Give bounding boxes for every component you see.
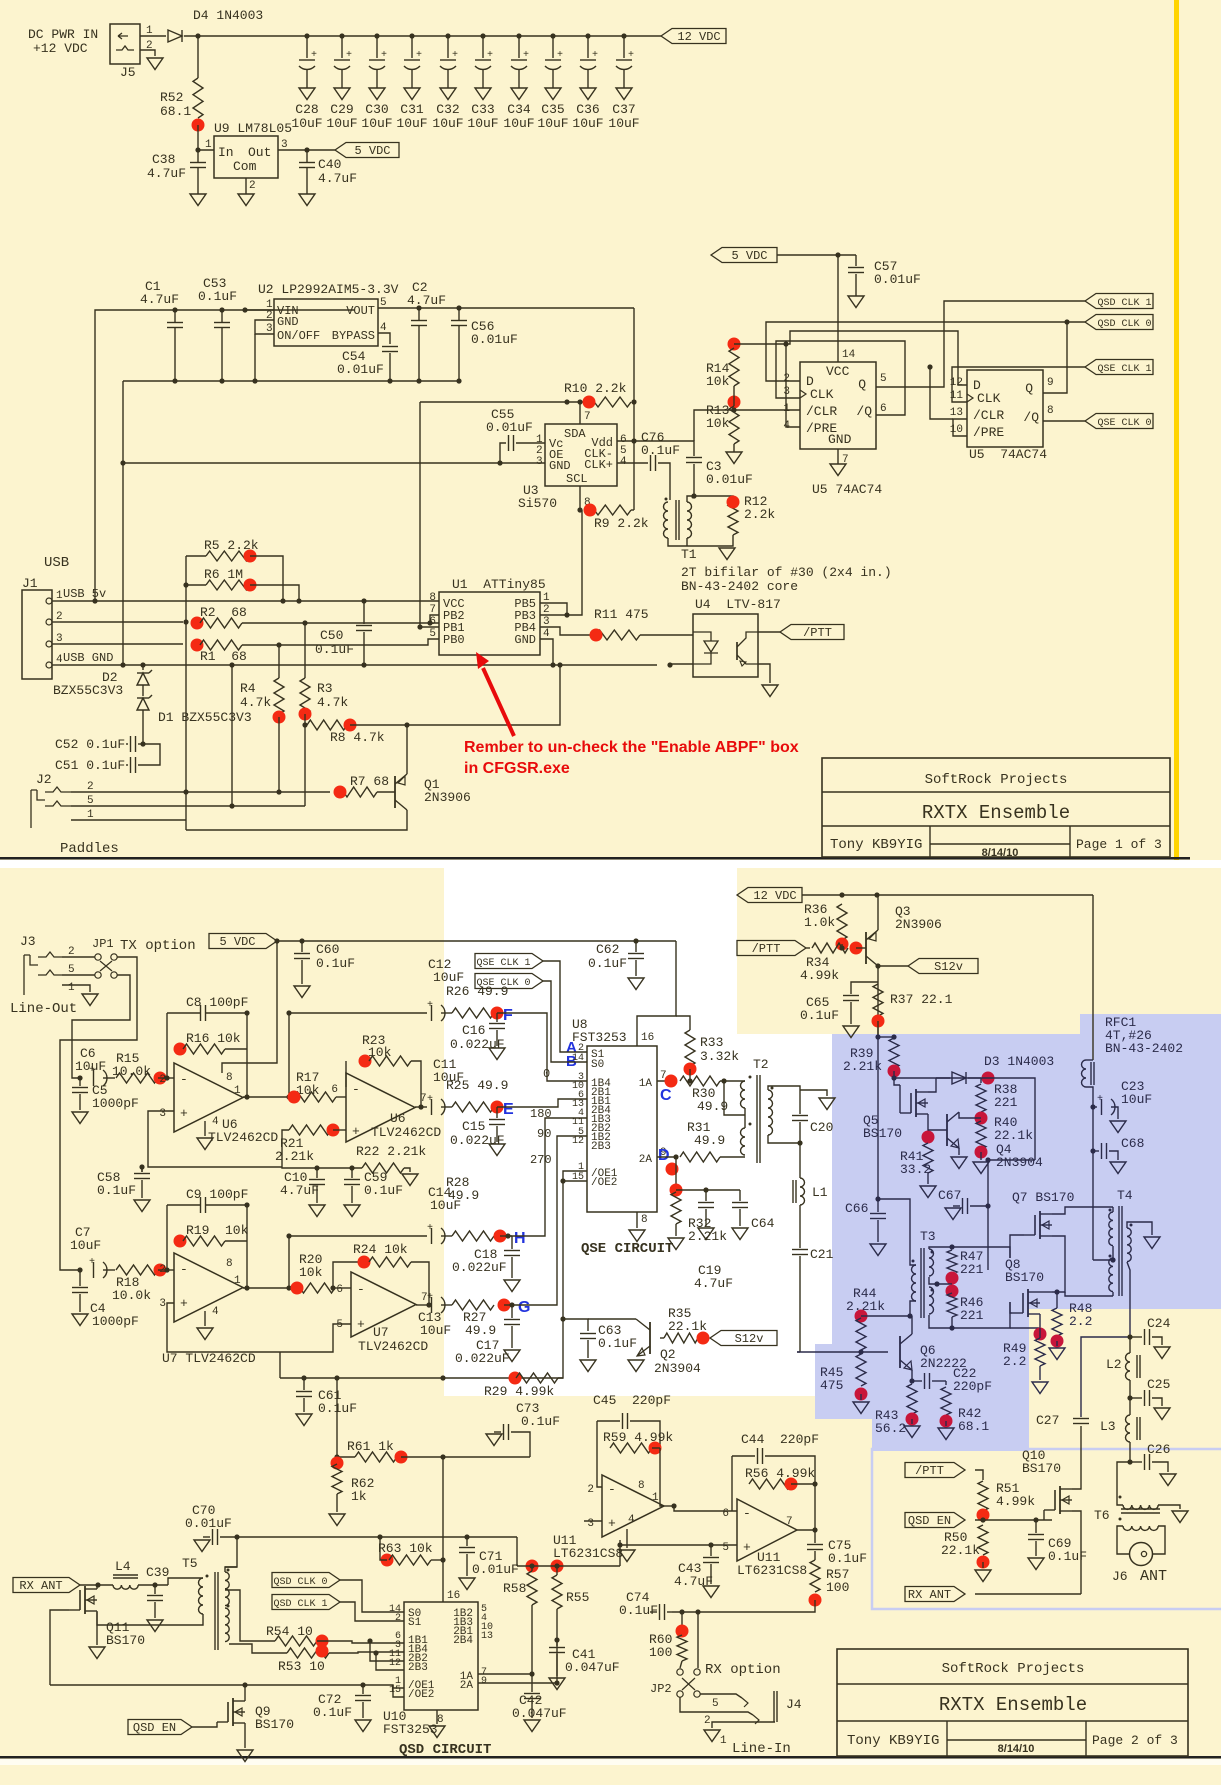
resistor R25 49.9	[441, 1106, 452, 1108]
red dot R9 left	[584, 504, 597, 517]
svg-text:RX option: RX option	[705, 1662, 781, 1678]
svg-text:0.047uF: 0.047uF	[512, 1706, 567, 1721]
svg-text:+: +	[381, 50, 387, 61]
svg-text:FST3253: FST3253	[383, 1722, 438, 1737]
svg-text:3: 3	[543, 616, 550, 628]
svg-text:16: 16	[447, 1590, 460, 1602]
wire R17 to U6b	[336, 1096, 346, 1098]
capacitor C59 0.1uF	[351, 1168, 353, 1178]
QSD EN flag	[905, 1513, 965, 1528]
svg-text:L1: L1	[812, 1185, 828, 1200]
svg-text:8: 8	[226, 1258, 233, 1270]
IC U3 Si570	[545, 424, 617, 486]
wire R60 to JP2	[680, 1661, 682, 1668]
svg-text:JP1: JP1	[92, 937, 114, 951]
resistor R62 1k	[331, 1457, 344, 1470]
ground R22 right	[404, 1168, 410, 1172]
svg-text:4: 4	[380, 322, 387, 334]
wire RX ANT line	[975, 1593, 1081, 1595]
ground below C40	[299, 194, 315, 206]
inductor L3	[1129, 1398, 1131, 1415]
svg-text:Com: Com	[233, 159, 257, 174]
bottom page border line	[0, 1756, 1221, 1759]
wire Q8 drain to T4 bottom	[1040, 1291, 1052, 1293]
transformer T2 primary lower	[741, 1128, 746, 1155]
svg-text:6: 6	[722, 1508, 729, 1520]
capacitor C62 0.1uF	[635, 941, 637, 952]
resistor R52 68.1	[197, 36, 199, 78]
svg-text:0.01uF: 0.01uF	[874, 272, 921, 287]
wire T4 secondary top gnd hook	[1127, 1222, 1152, 1235]
svg-text:J1: J1	[22, 576, 38, 591]
wire Q7 gate	[1010, 1235, 1024, 1258]
capacitor C3 0.01uF	[634, 441, 694, 456]
svg-text:GND: GND	[514, 633, 536, 647]
svg-text:0.1uF: 0.1uF	[641, 443, 680, 458]
wire U2 GND ON/OFF jog	[255, 320, 274, 334]
wire USB pin2 to R2	[60, 621, 183, 623]
wires R54 R53 to U10	[317, 1641, 404, 1643]
svg-text:C15: C15	[462, 1119, 485, 1134]
svg-text:T3: T3	[920, 1229, 936, 1244]
wire C76 to T1	[658, 463, 670, 500]
svg-text:2: 2	[543, 604, 550, 616]
wire R52 to U9 In	[198, 125, 214, 150]
wire Q5 drain up	[928, 1078, 936, 1092]
wire R20 to U7b	[335, 1287, 351, 1289]
svg-text:475: 475	[820, 1378, 843, 1393]
svg-text:Q7 BS170: Q7 BS170	[1012, 1190, 1074, 1205]
ground below C35	[545, 88, 561, 100]
svg-text:L3: L3	[1100, 1419, 1116, 1434]
svg-text:16: 16	[641, 1032, 654, 1044]
svg-text:10uF: 10uF	[608, 116, 639, 131]
wire Q2 emitter gnd	[628, 1360, 644, 1372]
wire paddle pin5 line	[71, 805, 305, 807]
wire R7 to Q1 base	[377, 791, 395, 793]
wire J5 pin2 to ground	[140, 50, 155, 56]
svg-text:ON/OFF: ON/OFF	[277, 329, 320, 343]
wire T6 primary right gnd	[1158, 1505, 1180, 1509]
svg-text:14: 14	[842, 349, 856, 361]
resistor R56 4.99k	[749, 1479, 791, 1489]
wire U5b Q pin9 to QSD CLK 0	[1043, 322, 1067, 393]
svg-text:C64: C64	[751, 1216, 775, 1231]
svg-text:+: +	[427, 1094, 433, 1105]
svg-text:SDA: SDA	[564, 427, 586, 441]
wire R5 R6 left to USB5v	[185, 585, 187, 622]
svg-text:7: 7	[429, 604, 436, 616]
resistor R28 49.9	[441, 1235, 452, 1237]
svg-text:5: 5	[68, 964, 75, 976]
svg-text:SoftRock Projects: SoftRock Projects	[942, 1661, 1085, 1677]
svg-text:1: 1	[543, 592, 550, 604]
resistor R4 4.7k	[278, 645, 280, 678]
svg-text:68.1: 68.1	[160, 104, 191, 119]
resistor R2 68	[191, 617, 204, 630]
svg-text:C39: C39	[146, 1565, 169, 1580]
wire T5 sec top rail C70	[225, 1567, 237, 1572]
svg-text:15: 15	[389, 1685, 401, 1696]
svg-text:4: 4	[783, 420, 790, 432]
wire T2 secondary top to gnd	[768, 1086, 800, 1090]
wire R12 bottom gnd	[727, 535, 733, 546]
svg-text:1k: 1k	[351, 1489, 367, 1504]
wire R21 left bias	[282, 1130, 362, 1168]
svg-text:C29: C29	[330, 102, 353, 117]
op-amp U11a LT6231CS8	[602, 1475, 664, 1537]
svg-text:/OE2: /OE2	[591, 1177, 617, 1189]
svg-text:5 VDC: 5 VDC	[219, 935, 255, 949]
ground U5a pin7	[837, 449, 839, 464]
wire R37 into blue region	[877, 1021, 879, 1037]
svg-text:ANT: ANT	[1140, 1568, 1167, 1585]
capacitor C4 1000pF	[79, 1270, 81, 1286]
wire U1 GND pin4	[540, 639, 553, 665]
svg-text:10uF: 10uF	[433, 970, 464, 985]
12 VDC net flag	[661, 29, 726, 44]
wire R32 bottom rail	[675, 1224, 677, 1236]
svg-text:22.1k: 22.1k	[994, 1128, 1033, 1143]
ground below U9 Com	[238, 194, 254, 206]
svg-text:10uF: 10uF	[1121, 1092, 1152, 1107]
svg-text:+: +	[487, 50, 493, 61]
wire QSD EN to Q9 gate	[192, 1722, 217, 1727]
op-amp U6b TLV2462CD	[346, 1073, 415, 1142]
svg-text:Rember to un-check the "Enable: Rember to un-check the "Enable ABPF" box	[464, 739, 799, 756]
wire Q11 source gnd	[96, 1611, 98, 1645]
svg-text:2: 2	[146, 40, 153, 52]
svg-text:221: 221	[960, 1308, 984, 1323]
svg-text:QSD CLK 1: QSD CLK 1	[1097, 298, 1151, 309]
wire Vdd pin6 to rail	[617, 440, 634, 442]
svg-text:10uF: 10uF	[572, 116, 603, 131]
svg-text:C28: C28	[295, 102, 318, 117]
svg-text:49.9: 49.9	[465, 1323, 496, 1338]
svg-text:TX option: TX option	[120, 938, 196, 954]
svg-text:U6: U6	[390, 1111, 406, 1126]
capacitor C2 4.7uF	[418, 308, 420, 320]
wire R2 right	[242, 622, 439, 624]
wire J5 pin1 to D4	[140, 35, 166, 37]
svg-text:180: 180	[530, 1107, 552, 1121]
wire U6a pin3 bias rail	[148, 1111, 282, 1167]
wire PTT to R34	[806, 947, 810, 949]
resistor R21 2.21k	[289, 1125, 331, 1135]
svg-text:10uF: 10uF	[70, 1238, 101, 1253]
ground at J3 pin1	[62, 985, 90, 992]
svg-text:Page 1 of 3: Page 1 of 3	[1076, 837, 1162, 852]
wire D lines down to paddles	[185, 622, 187, 792]
svg-text:270: 270	[530, 1153, 552, 1167]
svg-text:+: +	[452, 50, 458, 61]
transistor Q6 2N2222	[899, 1336, 901, 1368]
wire R33 to 1A	[689, 1069, 691, 1081]
svg-text:10uF: 10uF	[326, 116, 357, 131]
wire OE line	[50, 1685, 404, 1688]
wire T4 secondary bottom to filter	[1127, 1262, 1130, 1337]
svg-text:QSE CLK 1: QSE CLK 1	[476, 958, 530, 969]
svg-text:0.01uF: 0.01uF	[486, 420, 533, 435]
wire R39 to D3 rail	[894, 1071, 950, 1078]
wire Q9 drain to OE line	[244, 1685, 246, 1701]
svg-text:5: 5	[429, 628, 436, 640]
resistor R46 221	[947, 1293, 957, 1317]
5 VDC flag page2	[209, 934, 277, 949]
wire U6a out	[243, 1096, 294, 1098]
svg-text:6: 6	[880, 403, 887, 415]
wire T1 secondary bottom	[686, 538, 688, 546]
QSD EN flag left	[128, 1720, 192, 1735]
resistor R49 2.2	[1034, 1328, 1047, 1341]
wire base rail Q6	[797, 1351, 888, 1353]
svg-text:Q2: Q2	[660, 1347, 676, 1362]
svg-text:U7 TLV2462CD: U7 TLV2462CD	[162, 1351, 256, 1366]
resistor R50 22.1k	[978, 1525, 988, 1555]
wire U7b pin5 bias	[167, 1311, 351, 1352]
wire U11a out	[664, 1505, 674, 1507]
ground below R48	[1056, 1341, 1058, 1346]
wire paddle pin2 line	[71, 791, 330, 793]
svg-text:SCL: SCL	[566, 472, 588, 486]
svg-text:J3: J3	[20, 934, 36, 949]
svg-text:+: +	[557, 50, 563, 61]
svg-text:Si570: Si570	[518, 496, 557, 511]
svg-text:/OE2: /OE2	[408, 1689, 434, 1701]
resistor R36 1.0k	[837, 904, 847, 940]
svg-text:0.1uF: 0.1uF	[97, 1183, 136, 1198]
wire U5b CLR PRE tie	[953, 419, 967, 436]
wire QSE CLK 1 to S1	[543, 961, 587, 1052]
svg-text:TLV2462CD: TLV2462CD	[358, 1339, 428, 1354]
resistor R47 221	[947, 1250, 957, 1274]
wire SDA net from R10 down to U1 PB1	[420, 402, 439, 627]
svg-text:Tony KB9YIG: Tony KB9YIG	[847, 1733, 939, 1749]
svg-text:+: +	[608, 1516, 616, 1531]
resistor R48 2.2	[1056, 1292, 1058, 1308]
svg-text:12 VDC: 12 VDC	[753, 889, 796, 903]
svg-text:10.0k: 10.0k	[112, 1064, 151, 1079]
capacitor C75 0.1uF	[814, 1530, 816, 1543]
wire U4 out to PTT flag	[758, 631, 780, 633]
zener D2 BZX55C3V3	[142, 665, 144, 670]
wire R21 to U6b pin5	[333, 1129, 346, 1131]
svg-text:GND: GND	[277, 315, 299, 329]
svg-text:/PTT: /PTT	[915, 1464, 944, 1478]
svg-text:R9 2.2k: R9 2.2k	[594, 516, 649, 531]
wire SCL net down to U1 PB3	[540, 510, 582, 615]
wire U9 Out to 5VDC	[278, 149, 335, 151]
svg-text:GND: GND	[549, 459, 571, 473]
svg-text:1: 1	[720, 1735, 727, 1747]
svg-text:C9 100pF: C9 100pF	[186, 1187, 248, 1202]
wire T5 taps to R54 R53	[225, 1590, 275, 1641]
wire USB pin3 to R1	[60, 643, 183, 645]
wire R58 R55 top rail	[517, 1565, 620, 1567]
svg-text:9: 9	[1047, 377, 1054, 389]
svg-text:BS170: BS170	[1005, 1270, 1044, 1285]
blue region page2 PA	[815, 1014, 1221, 1451]
svg-text:6: 6	[331, 1084, 338, 1096]
svg-text:13: 13	[950, 407, 963, 419]
svg-text:R10 2.2k: R10 2.2k	[564, 381, 627, 396]
wire R15 to U6a pin2	[158, 1077, 174, 1079]
svg-text:VOUT: VOUT	[346, 304, 375, 318]
capacitor C68	[1090, 1148, 1095, 1153]
svg-text:2.2k: 2.2k	[744, 507, 775, 522]
svg-text:9: 9	[481, 1676, 487, 1687]
svg-text:C67: C67	[938, 1188, 961, 1203]
capacitor C17 0.022uF	[504, 1304, 512, 1306]
svg-text:RX ANT: RX ANT	[908, 1588, 951, 1602]
svg-text:4.7k: 4.7k	[317, 695, 348, 710]
svg-text:2A: 2A	[460, 1680, 474, 1692]
transistor Q3 2N3906	[865, 932, 867, 964]
resistor R12 2.2k	[728, 503, 738, 535]
resistor R31 49.9	[680, 1152, 720, 1162]
capacitor C60 0.1uF	[301, 941, 303, 952]
svg-text:QSE CIRCUIT: QSE CIRCUIT	[581, 1241, 673, 1257]
capacitor C67	[936, 1077, 988, 1079]
svg-text:2.21k: 2.21k	[275, 1149, 314, 1164]
svg-text:0.1uF: 0.1uF	[828, 1551, 867, 1566]
resistor R55	[551, 1560, 564, 1573]
wire G to U8	[512, 1136, 587, 1305]
svg-text:In: In	[218, 145, 234, 160]
svg-text:R24 10k: R24 10k	[353, 1242, 408, 1257]
svg-text:4.7k: 4.7k	[240, 695, 271, 710]
zener D1 BZX55C3V3	[142, 685, 144, 696]
svg-text:8: 8	[641, 1214, 648, 1226]
ground below R43	[911, 1419, 913, 1424]
title block page 2	[837, 1649, 1188, 1756]
wire R39 to Q5 gate	[894, 1078, 900, 1085]
wire S12 bus in PA	[877, 1037, 879, 1199]
svg-text:1: 1	[146, 25, 153, 37]
svg-text:R37 22.1: R37 22.1	[890, 992, 953, 1007]
svg-text:in CFGSR.exe: in CFGSR.exe	[464, 760, 570, 777]
wire Q10 source to RX ANT	[1072, 1511, 1081, 1594]
capacitor C29 10uF	[339, 33, 344, 38]
op-amp U7a TLV2462CD	[174, 1253, 243, 1322]
svg-text:R25 49.9: R25 49.9	[446, 1078, 508, 1093]
wire JP1 to C6 channel	[72, 975, 130, 1078]
wire Q8 gate	[1010, 1302, 1012, 1313]
5 VDC net flag	[335, 143, 399, 158]
wire Q7 drain to T4	[1052, 1207, 1113, 1214]
wire paddle pin1 gnd	[71, 819, 186, 821]
wire C70 rail to QSD outputs	[237, 1536, 517, 1538]
svg-text:5: 5	[880, 373, 887, 385]
capacitor C66	[875, 1196, 880, 1201]
wire H to U8	[508, 1118, 587, 1236]
resistor R8 4.7k	[307, 720, 347, 730]
svg-text:R4: R4	[240, 681, 256, 696]
wire rail corner down to R58 line	[516, 1537, 518, 1566]
wire R4 bottom down	[278, 717, 280, 792]
wire R1 right	[242, 639, 439, 645]
capacitor C69 0.1uF	[1035, 1520, 1037, 1533]
svg-text:DC PWR IN: DC PWR IN	[28, 27, 98, 42]
svg-text:QSE CLK 0: QSE CLK 0	[1097, 418, 1151, 429]
svg-text:2B4: 2B4	[453, 1635, 473, 1647]
resistor R13 10k	[728, 396, 741, 409]
capacitor C33 10uF	[480, 33, 485, 38]
svg-text:5: 5	[722, 1542, 729, 1554]
svg-text:8/14/10: 8/14/10	[982, 847, 1019, 859]
svg-text:C27: C27	[1036, 1413, 1059, 1428]
wire OE2 stub	[393, 1685, 404, 1697]
svg-text:U2 LP2992AIM5-3.3V: U2 LP2992AIM5-3.3V	[258, 282, 399, 297]
svg-text:22.1k: 22.1k	[941, 1543, 980, 1558]
svg-text:C38: C38	[152, 152, 175, 167]
svg-text:8: 8	[638, 1480, 645, 1492]
IC U8 FST3253	[587, 1046, 657, 1212]
capacitor C76 0.1uF	[650, 455, 652, 471]
wire T1 secondary to R12	[687, 496, 733, 502]
svg-text:C40: C40	[318, 157, 341, 172]
svg-text:+12 VDC: +12 VDC	[33, 41, 88, 56]
wire Q1 collector down	[186, 810, 407, 830]
svg-text:R1 68: R1 68	[200, 649, 247, 664]
svg-text:2T bifilar of #30 (2x4 in.): 2T bifilar of #30 (2x4 in.)	[681, 565, 892, 580]
svg-text:C62: C62	[596, 942, 619, 957]
connector J6 ANT	[1130, 1543, 1153, 1566]
svg-text:10uF: 10uF	[361, 116, 392, 131]
mosfet Q11 BS170	[84, 1586, 86, 1614]
svg-text:E: E	[503, 1101, 514, 1118]
svg-text:+: +	[743, 1540, 751, 1555]
svg-text:0.01uF: 0.01uF	[471, 332, 518, 347]
svg-text:T5: T5	[182, 1556, 198, 1571]
svg-text:GND: GND	[828, 432, 852, 447]
ground below C29	[334, 88, 350, 100]
svg-text:U7: U7	[373, 1325, 389, 1340]
svg-text:68.1: 68.1	[958, 1419, 989, 1434]
resistor R45 475	[856, 1354, 866, 1386]
svg-text:U9 LM78L05: U9 LM78L05	[214, 121, 292, 136]
capacitor C18 0.022uF	[500, 1235, 512, 1237]
wire CLK+ pin4 to C76	[617, 462, 648, 464]
svg-text:13: 13	[481, 1631, 493, 1642]
wire R40 bottom gnd	[980, 1152, 982, 1160]
svg-text:4.7uF: 4.7uF	[694, 1276, 733, 1291]
svg-text:R3: R3	[317, 681, 333, 696]
resistor R10 2.2k	[420, 401, 587, 403]
svg-text:49.9: 49.9	[448, 1188, 479, 1203]
red dot R52 bottom	[192, 119, 205, 132]
regulator U2 LP2992AIM5-3.3V	[274, 299, 378, 346]
long gnd wire to U3 GND pin3	[123, 462, 545, 464]
ground below C34	[511, 88, 527, 100]
svg-text:10k: 10k	[368, 1045, 392, 1060]
wire to JP2 right	[697, 1612, 699, 1668]
capacitor C43 4.7uF	[708, 1542, 713, 1547]
svg-text:U1 ATTiny85: U1 ATTiny85	[452, 577, 546, 592]
inductor L2	[1129, 1337, 1131, 1353]
svg-text:0.1uF: 0.1uF	[316, 956, 355, 971]
svg-text:10k: 10k	[706, 416, 730, 431]
svg-text:56.2: 56.2	[875, 1421, 906, 1436]
wire 5V rail to U8 pin16	[637, 941, 676, 1046]
wire Q9 source gnd	[244, 1723, 246, 1748]
wire Q5 source down	[927, 1114, 929, 1132]
svg-text:1: 1	[783, 403, 790, 415]
svg-text:+: +	[346, 50, 352, 61]
svg-text:BS170: BS170	[106, 1633, 145, 1648]
SCL stub U3 pin8	[579, 486, 581, 510]
wire E to U8	[497, 1099, 587, 1107]
